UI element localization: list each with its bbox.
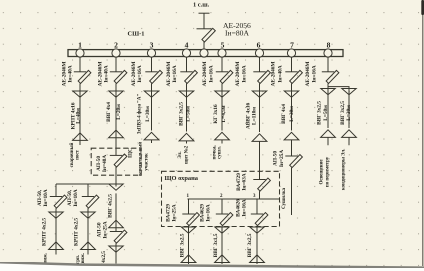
- contact triangle output3 upper: [250, 227, 264, 233]
- svg-text:3хПВ3-4 фаза "А": 3хПВ3-4 фаза "А": [136, 94, 143, 134]
- svg-text:ЩО охрана: ЩО охрана: [165, 175, 199, 182]
- wire drop A: [55, 208, 57, 249]
- wire feeder4 drop: [186, 57, 188, 72]
- svg-text:КГ 3х16: КГ 3х16: [213, 104, 219, 124]
- wire output1 lower: [188, 226, 190, 264]
- node 7: [287, 49, 295, 57]
- svg-text:L=20м: L=20м: [116, 104, 122, 120]
- wire feeder2: [115, 83, 117, 128]
- svg-text:Эл.: Эл.: [177, 151, 183, 159]
- svg-text:6: 6: [257, 41, 261, 50]
- svg-text:ВВГ 3х2,5: ВВГ 3х2,5: [340, 101, 346, 125]
- svg-text:Iн=10А: Iн=10А: [73, 189, 79, 206]
- wire feeder3 stub: [151, 140, 153, 143]
- contact triangle feeder7 upper: [284, 91, 298, 97]
- wire feeder5 drop: [221, 57, 223, 72]
- contact triangle output2 upper: [215, 227, 229, 233]
- wire feeder5 stub: [221, 140, 223, 144]
- box ЩС dashed: [91, 148, 141, 175]
- breaker ВА4629 16А output2: [216, 213, 233, 226]
- breaker АП-50 25А feeder2: [110, 230, 127, 243]
- contact triangle feeder8R lower: [342, 130, 357, 138]
- wire feeder8 drop: [327, 57, 329, 72]
- wire feeder2 cable ВВГ4х2,5: [115, 193, 117, 227]
- wire drop B: [87, 208, 89, 249]
- wire feeder6 to box: [259, 141, 261, 179]
- contact triangle feeder8L upper: [321, 89, 335, 95]
- svg-text:кондиционеры Эл.: кондиционеры Эл.: [341, 148, 347, 190]
- svg-text:8: 8: [327, 41, 331, 50]
- svg-text:L=4,5м: L=4,5м: [221, 105, 227, 122]
- svg-text:АП-50: АП-50: [273, 151, 279, 166]
- wire feeder3: [151, 83, 153, 130]
- svg-text:L=110м: L=110м: [251, 107, 257, 125]
- svg-text:Iн=10А: Iн=10А: [43, 189, 49, 206]
- node 3: [147, 49, 155, 57]
- node 1: [76, 49, 84, 57]
- svg-text:3: 3: [150, 41, 154, 50]
- svg-text:АЕ-2046М: АЕ-2046М: [271, 61, 277, 87]
- wire feeder7 lower: [291, 168, 293, 215]
- contact triangle feeder5 lower: [215, 132, 230, 140]
- breaker АЕ-2046М feeder3: [145, 70, 162, 83]
- svg-text:Iн=80А: Iн=80А: [225, 29, 249, 38]
- contact triangle feeder3 upper: [144, 91, 158, 97]
- wire feeder2 below box: [115, 167, 117, 187]
- wire input to internal bus: [259, 191, 261, 199]
- breaker АП-50 10А drop A: [50, 195, 67, 208]
- wire feeder8 right: [348, 89, 350, 129]
- node 2: [112, 49, 120, 57]
- svg-text:Iн=16А: Iн=16А: [312, 65, 318, 82]
- wire incomer upper: [203, 13, 205, 29]
- node incomer: [200, 49, 208, 57]
- svg-text:Iн=40А: Iн=40А: [104, 65, 110, 82]
- contact triangle output1 upper: [181, 227, 195, 233]
- svg-text:L=30м: L=30м: [145, 106, 151, 122]
- breaker АЕ-2046М feeder6: [253, 70, 270, 83]
- contact triangle feeder6 upper: [252, 91, 266, 97]
- svg-text:Iн=40А: Iн=40А: [102, 155, 108, 172]
- svg-text:КРПТ 4х2,5: КРПТ 4х2,5: [42, 218, 48, 246]
- svg-text:СШ-1: СШ-1: [128, 30, 145, 37]
- wire incomer lower: [203, 42, 205, 50]
- breaker АЕ-2046М feeder7: [285, 70, 302, 83]
- contact triangle feeder7 lower: [284, 132, 299, 140]
- wire motor drop A: [55, 184, 57, 197]
- svg-text:ВВГ 3х1,5: ВВГ 3х1,5: [213, 233, 219, 257]
- svg-text:ВВГ 3х2,5: ВВГ 3х2,5: [247, 233, 253, 257]
- contact triangle drop B upper: [81, 212, 95, 218]
- breaker АЕ-2046М feeder8: [322, 70, 339, 83]
- svg-text:ВВГ 3х2,5: ВВГ 3х2,5: [317, 101, 323, 125]
- contact triangle feeder4 lower: [179, 133, 194, 141]
- wire output1: [188, 199, 190, 214]
- svg-text:ВВГ 3х2,5: ВВГ 3х2,5: [179, 233, 185, 257]
- wire feeder2: [115, 243, 117, 263]
- contact triangle feeder2 lower1: [109, 184, 123, 190]
- node 4: [182, 49, 190, 57]
- contact triangle feeder2 cable end: [109, 130, 124, 138]
- switch QS АЕ-2056 blade: [202, 28, 215, 42]
- wire feeder7: [291, 83, 293, 130]
- breaker АЕ-2046М feeder2: [110, 70, 127, 83]
- wire output3 lower: [256, 226, 258, 264]
- breaker АП-50 40А in box: [110, 154, 127, 167]
- busbar СШ-1: [68, 50, 343, 57]
- wire feeder3 drop: [151, 57, 153, 72]
- svg-text:L=50м: L=50м: [323, 105, 329, 121]
- wire feeder7 drop: [291, 57, 293, 72]
- svg-text:4: 4: [185, 41, 189, 50]
- svg-text:Iн=16А: Iн=16А: [172, 65, 178, 82]
- wire output2: [221, 199, 223, 214]
- svg-text:1 с.ш.: 1 с.ш.: [193, 2, 210, 9]
- wire feeder1: [79, 83, 81, 131]
- wire feeder5: [221, 83, 223, 130]
- wire feeder8L stub: [327, 137, 329, 145]
- contact triangle feeder8R upper: [342, 89, 356, 95]
- contact triangle feeder1 upper: [73, 91, 87, 97]
- contact triangle drop A upper: [49, 212, 63, 218]
- svg-text:ВВГ 4х4: ВВГ 4х4: [106, 102, 112, 122]
- breaker ВА4729 63А input: [253, 178, 270, 191]
- svg-text:ВВГ 4х4: ВВГ 4х4: [281, 104, 287, 124]
- contact triangle output3 lower: [250, 255, 265, 263]
- contact triangle feeder2 upper: [109, 91, 123, 97]
- scan edge blob top right: [421, 0, 424, 15]
- breaker АЕ-2046М feeder4: [180, 70, 197, 83]
- node 8: [324, 49, 332, 57]
- svg-text:L=30м: L=30м: [289, 106, 295, 122]
- wire output2 lower: [221, 226, 223, 264]
- wire feeder6: [259, 83, 261, 132]
- contact triangle output1 lower: [181, 255, 196, 263]
- breaker ВА4626 16А output3: [251, 213, 268, 226]
- svg-text:5: 5: [221, 41, 225, 50]
- svg-text:Iн=16А: Iн=16А: [206, 204, 212, 221]
- svg-text:КРПТ 4х2,5: КРПТ 4х2,5: [74, 218, 80, 246]
- svg-text:ЩС: ЩС: [128, 148, 134, 158]
- wire feeder2 into box: [115, 128, 117, 155]
- svg-text:АП-50: АП-50: [96, 156, 102, 171]
- contact triangle feeder3 lower: [144, 132, 159, 140]
- svg-text:2: 2: [114, 41, 118, 50]
- breaker АП-50 10А drop B: [82, 195, 99, 208]
- svg-text:Iн=40А: Iн=40А: [278, 65, 284, 82]
- internal bus of ЩО: [188, 198, 280, 200]
- svg-text:АЕ-2046М: АЕ-2046М: [202, 61, 208, 87]
- svg-text:по периметру: по периметру: [324, 156, 330, 187]
- wire motor drop B: [87, 184, 89, 197]
- contact triangle feeder5 upper: [215, 91, 229, 97]
- svg-text:Сушилка: Сушилка: [281, 188, 287, 209]
- svg-text:L=40м: L=40м: [75, 108, 81, 124]
- scan edge right: [422, 0, 424, 266]
- svg-text:пост: пост: [75, 149, 81, 159]
- breaker АП-50 25А сушилка: [285, 155, 302, 168]
- contact triangle feeder2 lower2: [109, 220, 124, 228]
- node 6: [255, 49, 263, 57]
- svg-text:Iн=16А: Iн=16А: [242, 65, 248, 82]
- wire feeder2: [115, 228, 117, 232]
- contact triangle output2 lower: [215, 255, 230, 263]
- node 5: [218, 49, 226, 57]
- wire feeder2 drop: [115, 57, 117, 72]
- svg-text:Iн=16А: Iн=16А: [209, 65, 215, 82]
- breaker АЕ-2046М feeder5: [216, 70, 233, 83]
- breaker АЕ-2046М feeder1: [74, 70, 91, 83]
- svg-text:Iн=25А: Iн=25А: [279, 150, 285, 167]
- svg-text:1: 1: [78, 41, 82, 50]
- box ЩО охрана dashed: [162, 171, 280, 226]
- contact triangle feeder1 lower: [73, 133, 88, 141]
- svg-text:АЕ-2046М: АЕ-2046М: [235, 61, 241, 87]
- wire feeder4: [186, 83, 188, 131]
- wire drop A stub: [55, 250, 57, 255]
- svg-text:L=30м: L=30м: [346, 105, 352, 121]
- wire feeder4 stub: [186, 141, 188, 144]
- contact triangle feeder4 upper: [179, 91, 193, 97]
- svg-text:Iн=25А: Iн=25А: [172, 204, 178, 221]
- contact triangle drop A lower: [49, 242, 64, 250]
- svg-text:ВВГ 3х2,5: ВВГ 3х2,5: [179, 102, 185, 126]
- svg-text:ВВГ 4х2,5: ВВГ 4х2,5: [108, 194, 114, 218]
- wire feeder1 drop: [79, 57, 81, 72]
- contact triangle drop B lower: [81, 242, 96, 250]
- contact triangle feeder2 bottom: [109, 246, 123, 252]
- svg-text:Iн=63А: Iн=63А: [242, 173, 248, 190]
- contact triangle feeder6 lower: [252, 134, 267, 142]
- svg-text:Iн=16А: Iн=16А: [137, 65, 143, 82]
- wire feeder7: [291, 140, 293, 156]
- wire feeder8 split: [328, 83, 349, 88]
- wire feeder8R stub: [348, 137, 350, 145]
- wire branch to motor drops: [56, 183, 116, 185]
- wire feeder6 drop: [259, 57, 261, 72]
- svg-text:сушл.: сушл.: [217, 145, 223, 158]
- svg-text:7: 7: [290, 41, 294, 50]
- scan shadow bottom: [0, 262, 424, 271]
- wire drop B stub: [87, 250, 89, 255]
- breaker ВА4729 25А output1: [182, 213, 199, 226]
- svg-text:Iн=16А: Iн=16А: [241, 199, 247, 216]
- switch QS АЕ-2056 fixed contact bar: [197, 28, 212, 30]
- svg-text:осветительный: осветительный: [137, 142, 144, 176]
- wire feeder1 stub: [79, 132, 81, 146]
- svg-text:участок: участок: [144, 153, 150, 171]
- svg-text:Iн=25А: Iн=25А: [102, 221, 108, 238]
- svg-text:Iн=40А: Iн=40А: [68, 65, 74, 82]
- contact triangle feeder8L lower: [321, 130, 336, 138]
- svg-text:L=50м: L=50м: [186, 106, 192, 122]
- svg-text:щит №2: щит №2: [184, 145, 190, 164]
- wire feeder8 left: [327, 87, 329, 128]
- node 1 c.sh. top tick: [199, 12, 210, 14]
- svg-text:АЕ-2046М: АЕ-2046М: [305, 61, 311, 87]
- wire output3: [256, 199, 258, 214]
